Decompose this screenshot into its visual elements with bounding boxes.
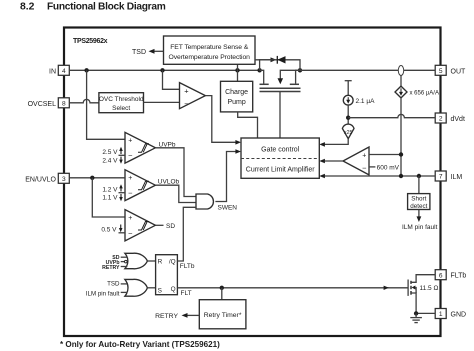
wire op-amp output to gate control [205,96,238,143]
wire OR to S [147,287,155,289]
svg-text:Gate control: Gate control [261,146,300,153]
svg-text:2: 2 [439,116,443,123]
svg-text:GND: GND [451,312,467,319]
wire Q FLT to output FET gate [177,287,408,289]
wire gate to gate control [279,92,281,139]
wire IN to UVP comparator + input [87,70,125,139]
svg-text:x 656 µA/A: x 656 µA/A [410,90,439,96]
svg-text:+: + [128,138,132,145]
svg-text:2.5 V: 2.5 V [102,149,118,156]
svg-text:x25: x25 [344,130,352,136]
wire CL amp + input [369,154,401,156]
svg-text:RETRY: RETRY [102,265,120,271]
svg-text:+: + [184,87,189,96]
svg-text:SD: SD [166,223,175,230]
svg-text:TPS25962x: TPS25962x [73,38,108,45]
Charge Pump block [221,81,253,112]
wire FET temp block to rail to charge pump [237,64,239,81]
channel bar [260,87,301,89]
pin GND (1) [435,309,466,319]
svg-text:4: 4 [62,68,66,75]
power FET back-to-back [257,56,302,138]
gate bar [260,91,301,93]
wire OVC block to op-amp - input [144,101,180,103]
pin OVCSEL (8) [28,98,70,108]
svg-text:/Q: /Q [169,259,176,266]
wire ILM line pin7 to gate control [322,175,435,177]
comparator SD [125,210,155,241]
SR latch [156,255,178,295]
body diode [277,56,285,63]
svg-text:7: 7 [439,174,443,181]
svg-text:Current Limit Amplifier: Current Limit Amplifier [246,166,316,173]
wire SD output [155,224,163,226]
svg-text:S: S [158,288,162,295]
AND gate SWEN [196,194,213,209]
body terminal with arrow [280,70,300,78]
node OUT side [298,68,302,72]
channel segments [410,281,412,284]
dependent current source x656 [395,76,439,177]
node GND [414,311,418,315]
Gate control / Current Limit Amplifier block [241,138,319,178]
svg-text:OUT: OUT [451,68,467,75]
comparator UVLO [125,170,155,201]
svg-text:−: − [128,151,133,160]
OVC Threshold Select block [99,93,144,113]
svg-text:−: − [128,229,133,238]
threshold 2.5V/2.4V [102,147,125,165]
threshold 1.2V/1.1V [102,184,125,202]
svg-text:R: R [158,259,163,266]
svg-text:OVCSEL: OVCSEL [28,101,57,108]
svg-text:1: 1 [439,311,443,318]
svg-text:0.5 V: 0.5 V [101,227,117,234]
pin dVdt (2) [435,113,465,123]
svg-text:detect: detect [410,203,427,210]
svg-text:FLT: FLT [181,290,192,297]
op-amp U-OVC [180,83,206,109]
svg-text:SWEN: SWEN [218,204,238,211]
svg-text:TSD: TSD [132,49,146,56]
TSD output arrow [132,49,164,56]
svg-text:ILM: ILM [451,174,463,181]
wire EN/UVLO pin to comparator [69,177,125,179]
wire CL amp output to gate control [322,160,343,162]
svg-text:−: − [128,189,133,198]
svg-text:TSD: TSD [107,280,120,287]
svg-text:ILM pin fault: ILM pin fault [86,290,120,297]
wire SWEN to gate control [215,152,238,202]
svg-text:2.1 µA: 2.1 µA [356,98,376,105]
svg-text:+: + [362,152,366,159]
x25 buffer [319,124,354,147]
svg-text:600 mV: 600 mV [377,164,400,171]
svg-text:RETRY: RETRY [155,313,178,320]
left contact [260,70,264,83]
wire to SD comparator [92,178,125,217]
svg-text:Overtemperature Protection: Overtemperature Protection [169,54,251,61]
wire FET temp block to FET gate net with arrowhead [255,57,277,62]
svg-text:FET Temperature Sense &: FET Temperature Sense & [170,44,248,51]
pin IN (4) [49,65,69,75]
wire UVLOb output [155,185,196,202]
svg-text:ILM pin fault: ILM pin fault [402,224,438,231]
wire charge pump to gate control [238,112,258,138]
svg-text:+: + [128,175,132,182]
OR gate S [86,279,148,297]
node on IN rail to UVP comparator [84,68,88,72]
svg-text:FLTb: FLTb [451,273,467,280]
svg-text:EN/UVLO: EN/UVLO [25,176,56,183]
pin ILM (7) [435,171,462,181]
svg-text:Select: Select [112,105,130,112]
ground [410,313,422,322]
svg-text:* Only for Auto-Retry Variant: * Only for Auto-Retry Variant (TPS259621… [60,340,220,349]
svg-text:11.5 Ω: 11.5 Ω [420,285,439,292]
pin FLTb (6) [435,270,466,280]
svg-text:Functional Block Diagram: Functional Block Diagram [47,1,166,12]
svg-text:+: + [128,215,132,222]
wire UVPb output [155,148,196,197]
svg-text:1.1 V: 1.1 V [102,195,118,202]
current limit amplifier [343,147,369,175]
node dVdt [346,116,350,120]
node on IN rail to OVC op-amp [160,68,164,72]
svg-text:3: 3 [62,176,66,183]
svg-text:IN: IN [49,68,56,75]
FET Temperature Sense block [164,36,256,64]
gate bar [407,280,409,296]
svg-text:2.4 V: 2.4 V [102,157,118,164]
wire OUT rail [300,69,435,71]
OR gate R [102,253,147,271]
pin OUT (5) [435,65,466,75]
svg-text:6: 6 [439,272,443,279]
svg-text:dVdt: dVdt [451,116,465,123]
svg-text:Short: Short [411,196,426,203]
body arrow [412,286,416,290]
outer device boundary [64,28,441,337]
wire dVdt node to pin 2 with hop [348,114,435,117]
comparator UVP [125,132,155,163]
600 mV reference [369,164,400,171]
node IN side [257,68,261,72]
svg-text:1.2 V: 1.2 V [102,186,118,193]
right contact [296,70,300,83]
node FLT to retry timer [220,286,224,290]
RETRY output arrow [155,313,199,320]
svg-text:OVC Threshold: OVC Threshold [99,96,144,103]
output FET FLTb open drain [408,275,438,314]
source to GND [411,293,435,313]
Short detect block [402,176,438,231]
pin EN/UVLO (3) [25,173,69,183]
svg-text:−: − [184,99,189,108]
svg-text:Charge: Charge [225,89,248,96]
wire /Q FLTb to AND gate [177,207,196,261]
svg-text:Pump: Pump [227,99,245,106]
wire IN rail [69,69,259,71]
wire OVCSEL to OVC block with hop over vertical [69,99,99,102]
svg-text:UVPb: UVPb [159,141,176,148]
svg-text:8: 8 [62,101,66,108]
svg-text:8.2: 8.2 [20,1,35,12]
svg-text:UVLOb: UVLOb [158,179,180,186]
current source 2.1 uA [343,81,375,125]
node on IN rail under FET temp block [235,68,239,72]
threshold 0.5V [101,225,125,234]
wire body diode loop [260,60,300,71]
wire OR to R [147,260,155,262]
wire IN to OVC op-amp + input [163,70,180,89]
crossover oval on OUT rail [398,66,403,76]
svg-text:FLTb: FLTb [180,263,195,270]
svg-text:−: − [362,164,367,173]
svg-text:Q: Q [171,286,176,293]
drain to pin 6 [411,275,435,283]
svg-text:Retry Timer*: Retry Timer* [204,312,242,319]
Retry Timer block [199,300,246,329]
svg-text:5: 5 [439,68,443,75]
